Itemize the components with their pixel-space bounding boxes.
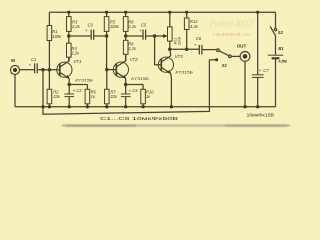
trimmer R11 wiper arrow — [155, 35, 165, 37]
svg-text:10мкФх16В: 10мкФх16В — [247, 112, 275, 117]
node stage2 base top — [105, 34, 109, 38]
transistor VT2 — [113, 62, 128, 77]
wire emitter to R6 — [69, 84, 87, 86]
svg-text:C7: C7 — [263, 68, 269, 73]
capacitor C4 — [125, 85, 127, 95]
scan shadow bottom — [62, 125, 290, 127]
wire R8/R9 node to C5 — [126, 35, 143, 37]
wire C5 to stage3 node — [146, 35, 155, 37]
node stage2 base — [105, 68, 109, 72]
watermark РадиоКОТ — [209, 18, 255, 36]
resistor R2 — [48, 70, 50, 90]
svg-text:S2: S2 — [278, 30, 284, 35]
svg-text:КТ315Б: КТ315Б — [175, 70, 193, 75]
svg-text:+: + — [129, 88, 132, 93]
svg-text:Радио КОТ: Радио КОТ — [209, 18, 255, 30]
svg-text:VT1: VT1 — [74, 59, 83, 64]
wire collector bus to C6 — [170, 48, 200, 50]
node VT1 emitter — [67, 83, 71, 87]
wire base riser stage2 — [106, 36, 108, 70]
svg-text:С1...С6 10мкФх50В: С1...С6 10мкФх50В — [100, 116, 178, 122]
node VT3 collector / R11 — [168, 47, 172, 51]
svg-text:КТ315Б: КТ315Б — [75, 78, 93, 83]
node R8/R9 junction — [124, 34, 128, 38]
resistor R7 — [106, 70, 108, 90]
resistor R6 — [86, 85, 88, 90]
resistor R3 — [67, 11, 70, 14]
wire top rail — [49, 11, 275, 13]
capacitor C2 — [68, 85, 70, 95]
transistor VT3 — [158, 57, 173, 72]
wire VT3 emitter to rail — [170, 78, 172, 107]
node stage3 base top — [153, 34, 157, 38]
wire C6 to S1 — [202, 49, 217, 51]
svg-text:C6: C6 — [196, 36, 202, 41]
node R3/R4 junction — [67, 34, 71, 38]
switch S2 — [274, 28, 276, 30]
svg-text:КТ315Б: КТ315Б — [131, 76, 149, 81]
resistor R10 — [142, 85, 144, 90]
svg-text:22к: 22к — [52, 94, 61, 99]
capacitor C6 — [198, 45, 200, 55]
wire C3 to stage2 base node — [94, 35, 107, 37]
node R12 bottom — [185, 47, 189, 51]
wire callout loop (dot1 down, under caption, up to S1) — [43, 60, 209, 115]
wire stage3 base riser — [155, 36, 162, 65]
svg-text:VT3: VT3 — [175, 54, 184, 59]
battery B1 — [268, 54, 283, 56]
svg-text:C3: C3 — [88, 22, 94, 27]
transistor VT1 — [57, 62, 72, 77]
capacitor C5 — [142, 30, 144, 40]
node VT2 emitter — [124, 83, 128, 87]
wire node A to C3 — [69, 35, 91, 37]
connector OUT — [240, 52, 250, 62]
wire IN to C1 — [20, 69, 35, 71]
wire C1 to VT1 base — [37, 69, 60, 71]
resistor R4 — [68, 36, 70, 43]
svg-text:4,5В: 4,5В — [278, 58, 287, 63]
svg-text:C4: C4 — [132, 88, 138, 93]
wire S1 to OUT — [231, 55, 240, 57]
svg-text:OUT: OUT — [237, 44, 247, 49]
svg-text:220к: 220к — [176, 37, 181, 46]
svg-text:radiokot.ru: radiokot.ru — [213, 31, 250, 36]
resistor R8 — [124, 11, 127, 14]
paper background — [0, 0, 300, 130]
capacitor C1 — [34, 63, 36, 73]
svg-text:C1: C1 — [31, 57, 36, 62]
wire bottom rail — [15, 106, 276, 108]
svg-text:+: + — [73, 88, 76, 93]
svg-text:+: + — [29, 63, 32, 68]
svg-text:+: + — [259, 68, 262, 73]
resistor R11 — [168, 11, 171, 14]
wire OUT ground drop — [244, 61, 246, 107]
resistor R5 — [105, 11, 108, 14]
svg-text:C2: C2 — [76, 88, 82, 93]
node dot1 — [41, 68, 45, 72]
svg-text:2,2к: 2,2к — [127, 24, 137, 29]
svg-text:C5: C5 — [141, 23, 147, 28]
svg-text:+: + — [139, 28, 142, 33]
wire emitter to R10 — [126, 84, 143, 86]
wire right branch (rail to S2 to B1 to bottom rail) — [275, 12, 277, 28]
svg-text:VT2: VT2 — [130, 57, 139, 62]
svg-text:100к: 100к — [52, 34, 62, 39]
resistor R12 — [185, 11, 188, 14]
svg-text:4,3к: 4,3к — [190, 24, 199, 29]
wire to VT2 base — [107, 69, 116, 71]
resistor R9 — [125, 36, 127, 40]
connector IN — [11, 66, 20, 75]
svg-text:2,2к: 2,2к — [71, 24, 81, 29]
svg-text:+: + — [85, 28, 88, 33]
svg-text:2,2к: 2,2к — [71, 51, 81, 56]
switch S1 — [217, 49, 220, 52]
capacitor C7 — [256, 11, 259, 14]
svg-text:B1: B1 — [278, 46, 284, 51]
svg-text:2,2к: 2,2к — [127, 46, 137, 51]
node dot on bottom rail at x43 — [41, 105, 44, 108]
svg-text:100к: 100к — [110, 24, 120, 29]
svg-text:22к: 22к — [109, 94, 118, 99]
node dot2 (R1/R2 tap) — [48, 68, 52, 72]
svg-text:S1: S1 — [222, 63, 228, 68]
capacitor C3 — [90, 30, 92, 40]
svg-text:+: + — [194, 42, 197, 47]
resistor R1 — [48, 12, 50, 25]
switch S1 lower terminal — [209, 59, 215, 61]
wire IN ground drop — [14, 75, 16, 107]
